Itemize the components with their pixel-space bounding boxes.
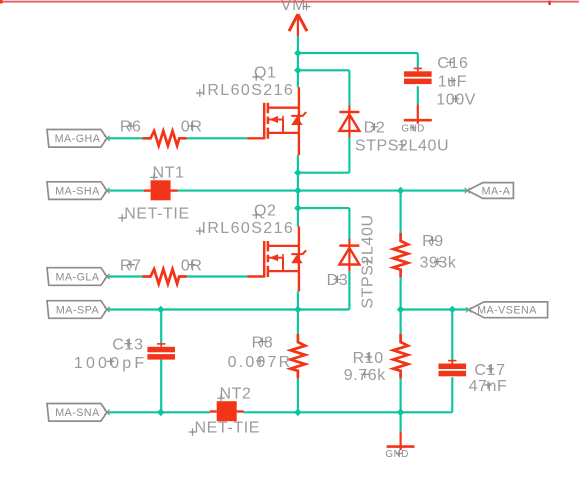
ground label GND (C16)	[401, 124, 425, 135]
net label MA-SNA	[47, 404, 110, 422]
svg-text:MA-GLA: MA-GLA	[56, 271, 100, 283]
label C13	[112, 337, 143, 354]
svg-text:Q2: Q2	[254, 202, 277, 219]
wire	[160, 360, 162, 413]
wire	[298, 172, 350, 174]
label Q1	[252, 64, 276, 81]
wire	[177, 190, 467, 192]
wire	[244, 411, 453, 413]
net label MA-SPA	[47, 301, 110, 319]
value NET-TIE (NT2)	[189, 419, 260, 436]
svg-text:MA-SPA: MA-SPA	[56, 304, 100, 316]
node rail / MA-A bus	[294, 187, 302, 195]
label C16	[437, 55, 468, 72]
power label VM	[281, 0, 311, 14]
power symbol VM	[289, 14, 307, 36]
wire	[107, 137, 142, 139]
label R8	[252, 335, 274, 352]
resistor R6	[142, 131, 186, 146]
wire	[298, 207, 350, 209]
diode D2 STPS2L40U	[339, 105, 359, 137]
wire	[297, 155, 299, 226]
net label MA-A	[465, 183, 514, 199]
label R6	[120, 119, 142, 136]
label R7	[120, 257, 142, 274]
label R10	[353, 350, 384, 367]
wire	[297, 291, 299, 309]
wire	[298, 69, 350, 71]
wire	[417, 86, 419, 105]
node R8 bottom / MA-SNA bus	[294, 409, 302, 417]
net label MA-GLA	[47, 268, 110, 286]
wire	[297, 310, 299, 336]
svg-text:MA-SHA: MA-SHA	[55, 186, 100, 198]
drain-source rail Q1	[298, 87, 300, 155]
net-tie NT1	[144, 180, 178, 200]
value 0.007R (R8)	[228, 354, 293, 371]
net label MA-SHA	[47, 182, 110, 200]
value IRL60S216 (Q2)	[196, 220, 294, 237]
svg-text:MA-VSENA: MA-VSENA	[477, 305, 537, 317]
svg-text:NT1: NT1	[153, 165, 185, 182]
net-tie NT2	[210, 401, 244, 421]
svg-text:MA-SNA: MA-SNA	[55, 407, 100, 419]
wire	[348, 70, 350, 105]
capacitor C17	[439, 360, 467, 376]
wire	[107, 190, 144, 192]
wire	[400, 412, 402, 431]
node VM rail / C16 tap	[294, 49, 302, 57]
wire	[186, 275, 247, 277]
wire	[298, 52, 418, 54]
svg-text:IRL60S216: IRL60S216	[202, 82, 295, 99]
ground label GND (bottom)	[385, 449, 409, 460]
label Q2	[252, 202, 276, 219]
value 1000pF (C13)	[74, 355, 147, 372]
wire	[348, 208, 350, 239]
svg-text:C16: C16	[437, 55, 468, 72]
node C13 top / MA-SPA bus	[157, 306, 165, 314]
wire	[107, 411, 210, 413]
svg-text:IRL60S216: IRL60S216	[202, 220, 295, 237]
node Q2 source / R8 top	[294, 306, 302, 314]
wire	[400, 191, 402, 233]
svg-text:MA-GHA: MA-GHA	[55, 133, 101, 145]
value 47nF (C17)	[469, 378, 508, 395]
drain-source rail Q2	[298, 226, 300, 291]
value 0R (R7)	[181, 257, 203, 274]
value IRL60S216 (Q1)	[196, 82, 294, 99]
svg-text:GND: GND	[385, 449, 409, 460]
sheet border line	[0, 0, 579, 5]
value 9.76k (R10)	[344, 367, 387, 384]
label D2	[364, 120, 386, 137]
diode D3 STPS2L40U	[339, 239, 359, 271]
wire	[400, 378, 402, 413]
capacitor C16	[404, 68, 432, 84]
wire	[451, 310, 453, 362]
wire	[297, 378, 299, 413]
svg-text:NT2: NT2	[220, 386, 252, 403]
transistor Q2 IRL60S216	[247, 241, 306, 278]
net label MA-GHA	[47, 130, 110, 148]
node VM rail / D2 tap	[294, 67, 302, 75]
wire	[297, 35, 299, 87]
label C17	[474, 362, 505, 379]
value 393k (R9)	[419, 254, 456, 271]
value STPS2L40U (D3, vertical)	[360, 214, 377, 308]
wire	[451, 377, 453, 412]
label NT1	[150, 165, 184, 182]
node rail / D3 tap	[294, 204, 302, 212]
wire	[401, 308, 469, 310]
wire	[417, 53, 419, 68]
net label MA-VSENA	[466, 302, 548, 318]
wire	[348, 138, 350, 173]
value NET-TIE (NT1)	[118, 205, 189, 222]
svg-text:MA-A: MA-A	[482, 185, 511, 197]
node R10 bottom / GND tap	[397, 409, 405, 417]
label NT2	[217, 386, 251, 403]
svg-text:NET-TIE: NET-TIE	[124, 205, 190, 222]
wire	[348, 271, 350, 309]
resistor R10	[393, 334, 408, 378]
node C17 top / VSENA bus	[449, 306, 457, 314]
value 1uF (C16)	[438, 73, 467, 90]
resistor R7	[142, 269, 186, 284]
value 100V (C16)	[436, 92, 476, 109]
wire	[160, 310, 162, 345]
resistor R8	[291, 334, 306, 378]
svg-text:NET-TIE: NET-TIE	[195, 419, 261, 436]
resistor R9	[393, 233, 408, 277]
ground (C16)	[404, 105, 432, 124]
wire	[107, 275, 142, 277]
node R9-R10 / VSENA bus	[397, 306, 405, 314]
capacitor C13	[147, 343, 175, 359]
value 0R (R6)	[181, 119, 203, 136]
label R9	[422, 233, 444, 250]
ground (bottom)	[387, 431, 415, 450]
svg-text:Q1: Q1	[254, 64, 277, 81]
wire	[186, 137, 247, 139]
node R9 top / MA-A bus	[397, 187, 405, 195]
wire	[400, 275, 402, 335]
svg-text:100V: 100V	[436, 92, 476, 109]
node Q1 source / D2 return	[294, 169, 302, 177]
wire	[107, 308, 350, 310]
node C13 bottom / MA-SNA bus	[157, 409, 165, 417]
label D3	[327, 272, 349, 289]
value STPS2L40U (D2)	[355, 138, 449, 155]
transistor Q1 IRL60S216	[247, 103, 306, 140]
